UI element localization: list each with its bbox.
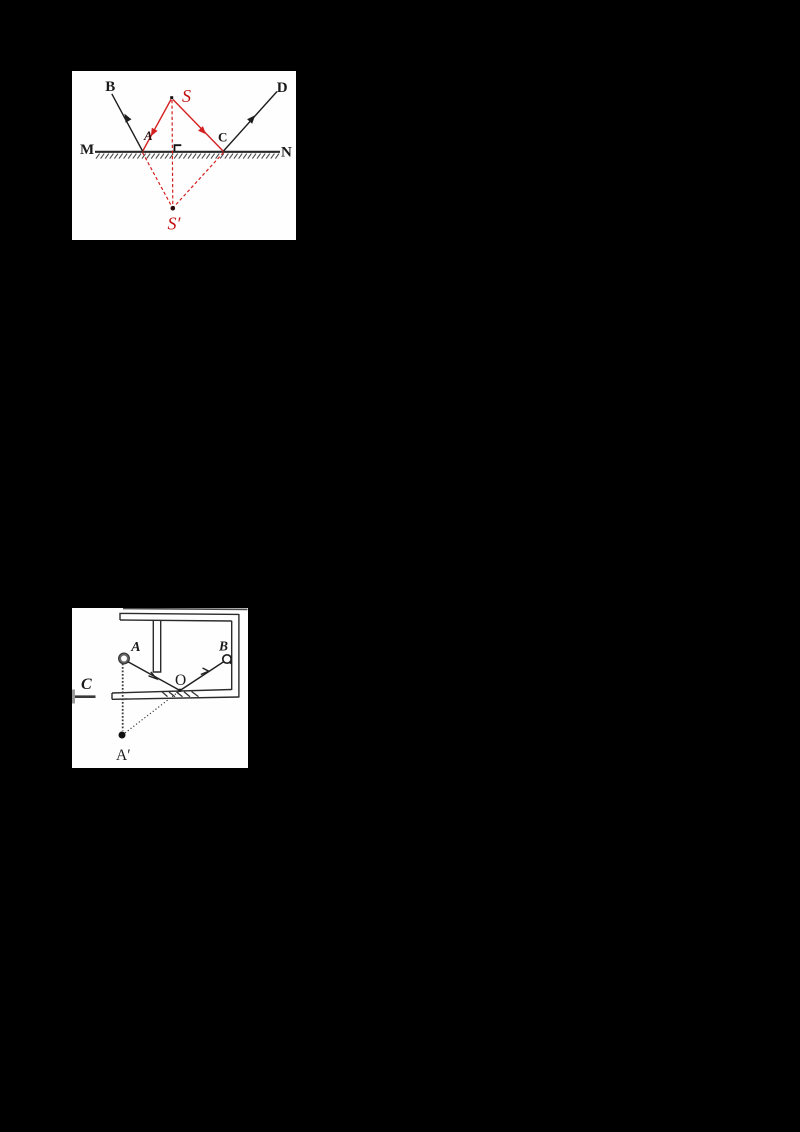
perpendicular dashed line S to S'	[171, 100, 174, 208]
arrowhead on ray to B	[124, 114, 131, 123]
svg-text:O: O	[175, 672, 186, 689]
svg-text:A: A	[143, 128, 153, 143]
arrowhead on ray S-C	[198, 126, 206, 134]
C underline	[75, 695, 96, 698]
svg-text:M: M	[80, 142, 94, 158]
gray edge blob	[72, 690, 75, 704]
right angle mark	[175, 145, 182, 151]
roof bar	[120, 613, 239, 620]
svg-text:A′: A′	[116, 747, 131, 764]
hanging divider	[153, 621, 160, 672]
dashed line C to S'	[173, 153, 223, 208]
image hole B circle	[223, 655, 231, 663]
image point S'	[171, 206, 176, 211]
image point A'	[119, 732, 126, 739]
diagram 1: plane mirror with source S and image S'	[72, 71, 296, 240]
floor left cap	[111, 693, 113, 699]
dashed line A to S'	[143, 153, 173, 208]
open arrowhead on A-O	[149, 672, 157, 679]
svg-text:D: D	[277, 80, 288, 96]
incident ray S to A	[143, 100, 172, 152]
object A circle	[120, 654, 129, 663]
dotted line A' to O	[125, 691, 180, 733]
ray O to B	[180, 662, 224, 691]
right wall inner line	[231, 621, 233, 690]
svg-text:N: N	[281, 145, 292, 161]
svg-text:B: B	[218, 639, 228, 654]
arrowhead on ray to D	[247, 115, 255, 124]
svg-text:S: S	[182, 86, 191, 106]
B circle tail	[229, 662, 231, 664]
svg-text:C: C	[218, 130, 227, 145]
roof bar bottom edge	[120, 620, 232, 621]
svg-text:C: C	[81, 676, 92, 693]
svg-text:B: B	[105, 79, 115, 95]
arrowhead on ray S-A	[151, 128, 158, 137]
roof top line	[123, 608, 248, 611]
floor inner line	[112, 690, 232, 694]
incident ray S to C	[173, 100, 224, 152]
svg-text:S′: S′	[168, 214, 182, 234]
right wall outer line	[238, 614, 240, 698]
ray A to O	[128, 662, 181, 691]
open arrowhead on O-B	[201, 668, 209, 675]
dotted vertical line A to A'	[122, 664, 124, 731]
reflected ray to B	[112, 94, 143, 151]
mirror hatching at O	[162, 691, 199, 697]
floor outer line	[112, 697, 239, 699]
mirror hatching	[96, 154, 279, 159]
source point S	[170, 96, 173, 99]
svg-text:A: A	[130, 640, 140, 655]
diagram 2: box with mirror at O, object A, image A'	[72, 608, 248, 768]
reflected ray to D	[224, 92, 278, 152]
mirror MN	[95, 151, 280, 153]
